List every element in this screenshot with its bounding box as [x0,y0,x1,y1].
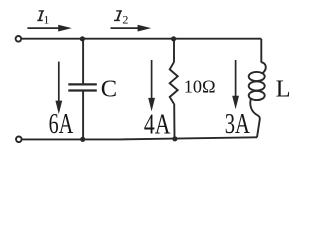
node junction dot bottom resistor [172,136,177,141]
wire top [22,38,261,40]
svg-text:L: L [276,76,291,103]
inductor L coil [249,62,266,137]
terminal top-left [16,36,22,42]
capacitor C lead top [82,39,84,84]
current arrow 4A [148,60,155,111]
current arrow 6A [55,62,62,115]
resistor lead bottom [173,104,175,139]
current arrow I1 [27,25,71,32]
capacitor C lead bottom [82,92,84,140]
terminal bottom-left [16,137,22,143]
capacitor C plates [68,84,97,90]
node junction dot bottom capacitor [80,137,85,142]
current arrow 3A [232,60,239,109]
svg-text:C: C [101,76,117,103]
svg-text:6A: 6A [49,109,74,140]
svg-text:1: 1 [43,13,49,27]
wire bottom [22,137,257,139]
svg-text:10Ω: 10Ω [184,77,216,97]
node junction dot top resistor [171,36,176,41]
wire right side (inductor branch leads) [260,39,262,63]
resistor lead top [173,39,175,63]
resistor R 10ohm zigzag [170,62,178,104]
label I2 [114,11,122,21]
current arrow I2 [111,25,152,32]
label I1 [37,11,44,21]
svg-text:2: 2 [122,13,128,27]
svg-text:3A: 3A [225,109,250,140]
svg-text:4A: 4A [144,110,171,140]
node junction dot top capacitor [80,36,85,41]
